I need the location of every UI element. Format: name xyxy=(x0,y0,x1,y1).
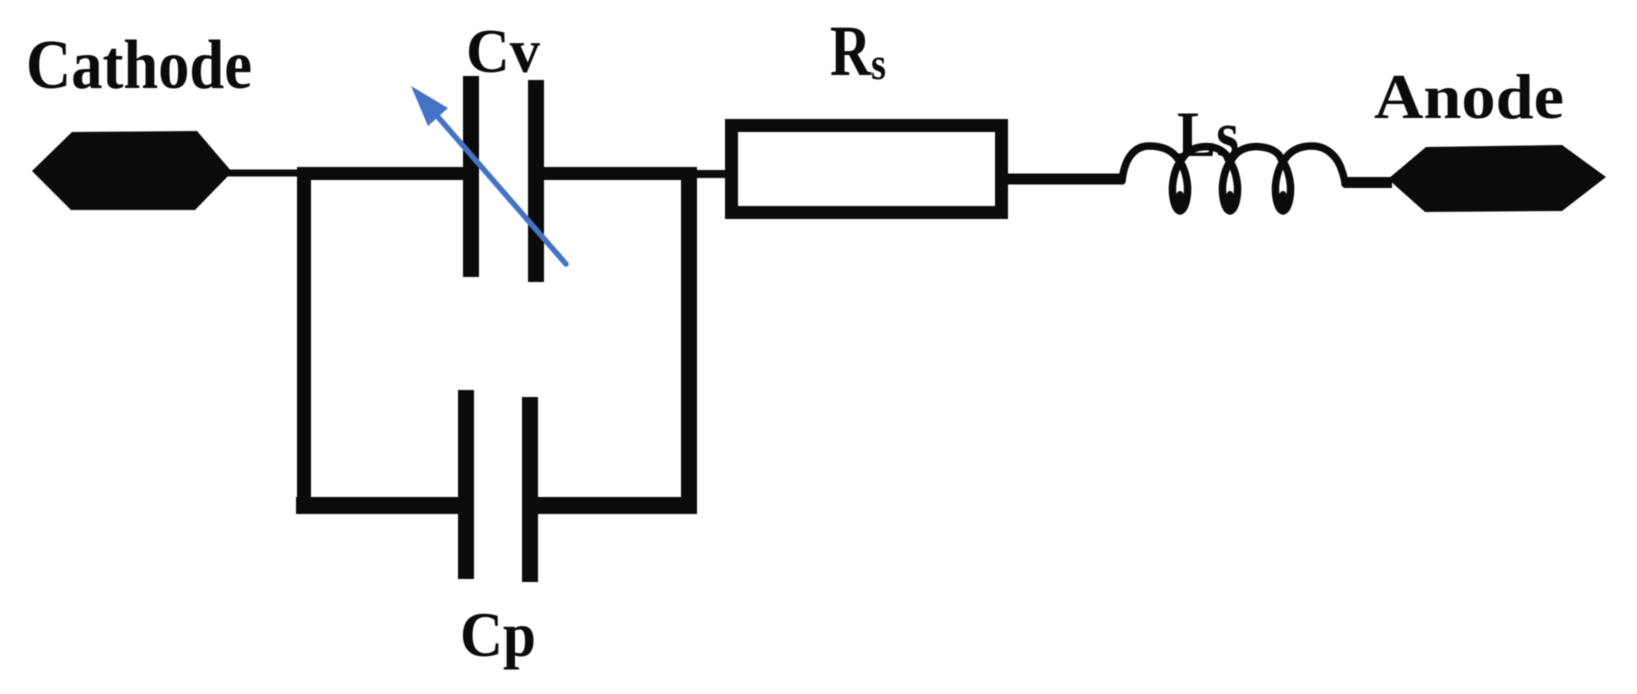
wire: inductor Ls to anode xyxy=(1344,177,1392,188)
parallel loop right vertical wire xyxy=(681,167,697,511)
node A: parallel loop left vertical wire xyxy=(297,167,311,514)
capacitor Cp right plate xyxy=(522,397,538,582)
svg-text:Cv: Cv xyxy=(466,18,540,86)
wire: loop bottom-left horizontal to Cp left plate xyxy=(296,497,462,514)
variable-capacitor arrow head xyxy=(411,86,448,126)
resistor Rs body xyxy=(732,126,1002,213)
inductor Ls coil loop-bottom blobs xyxy=(1175,191,1185,211)
anode terminal (hexagon) xyxy=(1388,145,1606,212)
svg-text:Anode: Anode xyxy=(1374,62,1564,132)
svg-text:Ls: Ls xyxy=(1177,99,1239,171)
svg-text:Cp: Cp xyxy=(460,600,536,670)
inductor Ls coil xyxy=(1122,146,1345,211)
svg-text:s: s xyxy=(871,38,886,89)
svg-text:Cathode: Cathode xyxy=(26,27,252,104)
capacitor Cv right plate xyxy=(528,80,544,282)
wire: loop top-right horizontal from Cv right plate xyxy=(541,167,697,180)
cathode terminal (hexagon) xyxy=(32,131,232,210)
wire: resistor Rs to inductor Ls xyxy=(1005,174,1123,185)
wire: loop top-left horizontal to Cv left plate xyxy=(297,167,466,180)
wire: loop bottom-right horizontal from Cp right plate xyxy=(534,497,697,514)
capacitor Cp left plate xyxy=(458,390,474,579)
svg-text:R: R xyxy=(830,11,872,91)
capacitor Cv left plate xyxy=(463,76,479,277)
wire: node B loop to resistor Rs xyxy=(695,170,733,178)
variable-capacitor arrow (blue) shaft xyxy=(438,117,566,264)
wire cathode to node A xyxy=(226,170,312,177)
